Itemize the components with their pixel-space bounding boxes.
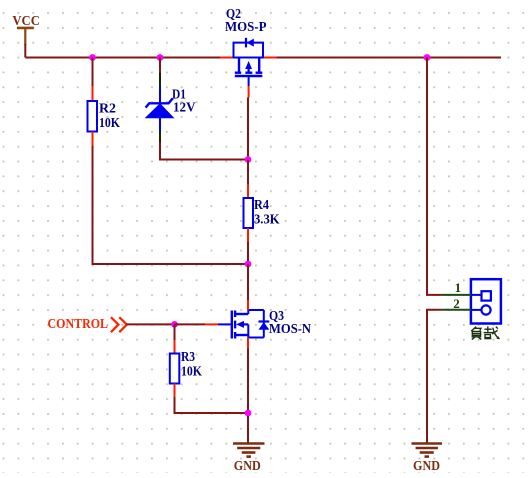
pin 1 (442, 294, 471, 296)
junction node VCC/load (424, 54, 431, 61)
svg-text:1: 1 (455, 280, 462, 295)
zener diode D1 (146, 73, 174, 143)
svg-text:VCC: VCC (12, 13, 40, 28)
svg-text:R2: R2 (99, 100, 116, 115)
wire node to R3 (174, 324, 176, 340)
transistor Q3 MOS-N (205, 300, 269, 349)
wire R2 to node (93, 146, 249, 264)
svg-text:2: 2 (453, 296, 460, 311)
connector J1 load (471, 279, 501, 323)
wire load branch (427, 58, 442, 295)
wire D1 to node (160, 143, 248, 160)
svg-text:MOS-N: MOS-N (269, 321, 311, 336)
svg-text:10K: 10K (181, 364, 202, 379)
svg-text:R3: R3 (181, 349, 195, 364)
svg-text:3.3K: 3.3K (254, 212, 280, 227)
svg-text:GND: GND (413, 458, 440, 473)
ground GND right (412, 444, 443, 457)
svg-text:R4: R4 (254, 197, 269, 212)
载 (484, 328, 491, 330)
label 负载 (load) drawn as strokes (471, 326, 499, 339)
svg-text:MOS-P: MOS-P (225, 19, 267, 34)
wire rail to D1 (159, 58, 161, 73)
wire node to Q3 gate (175, 323, 206, 325)
wire CONTROL to node (127, 323, 175, 325)
junction node R2/R4/Q3 drain (245, 261, 252, 268)
wire node to R4 (247, 160, 249, 185)
resistor R4 (244, 184, 254, 242)
power symbol VCC (17, 28, 34, 45)
resistor R2 (88, 86, 98, 146)
svg-text:10K: 10K (99, 115, 120, 130)
port CONTROL (48, 316, 127, 332)
wire node to Q3 drain (247, 264, 249, 300)
wire R3 to ground node (175, 397, 249, 413)
junction node CONTROL/R3/Q3 gate (171, 321, 178, 328)
wire Q3 source down (247, 349, 249, 444)
ground GND left (233, 444, 265, 457)
wire rail to R2 (92, 58, 94, 87)
wire VCC stem (24, 44, 26, 58)
wire pin2 to ground (427, 310, 442, 443)
svg-text:GND: GND (234, 458, 261, 473)
junction node R3/Q3 source/GND (245, 410, 252, 417)
junction node VCC/D1 (157, 54, 164, 61)
wire Q2 gate to node (247, 98, 249, 160)
svg-text:12V: 12V (173, 100, 196, 115)
pin 2 (442, 309, 471, 311)
junction node VCC/R2 (89, 54, 96, 61)
transistor Q2 MOS-P (220, 38, 277, 98)
wire R4 to node (247, 242, 249, 264)
svg-text:CONTROL: CONTROL (48, 316, 109, 331)
wire top rail (25, 57, 501, 59)
resistor R3 (170, 340, 180, 397)
junction node gate/D1/R4 (245, 156, 252, 163)
负 (471, 327, 476, 332)
